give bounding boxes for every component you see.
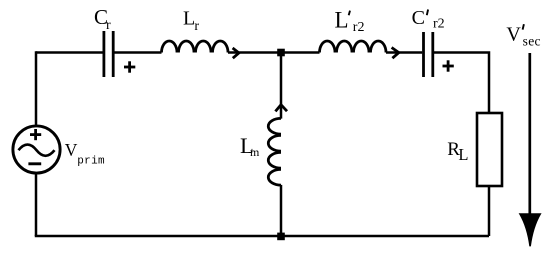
current arrow after L_r — [233, 48, 239, 58]
wire left rail upper (corner to source top) — [35, 51, 38, 125]
wire bottom rail — [35, 235, 489, 238]
svg-text:C: C — [412, 7, 425, 29]
inductor L2 (L'_r2) coil — [320, 41, 387, 53]
source plus sign — [30, 129, 41, 140]
wire L_r end to node A (through arrow) — [228, 51, 281, 54]
wire C'r2 to right corner, down to RL — [434, 53, 489, 113]
svg-text:r: r — [106, 18, 111, 33]
label L'_r2 — [335, 8, 365, 35]
svg-text:V: V — [506, 23, 521, 45]
wire L'r2 end to C'r2 — [386, 51, 422, 54]
svg-text:V: V — [65, 140, 78, 160]
source sine wave — [19, 145, 55, 156]
wire RL bottom to bottom rail — [488, 187, 491, 236]
label C_r — [94, 5, 111, 33]
capacitor C1 (C_r) plates — [104, 31, 113, 77]
wire middle branch upper — [280, 53, 283, 119]
wire top-left segment — [36, 51, 103, 54]
svg-text:r2: r2 — [433, 17, 445, 32]
current arrow on L_m branch (up) — [275, 105, 287, 112]
svg-text:r2: r2 — [353, 20, 365, 35]
capacitor C2 (C'_r2) plates — [424, 32, 433, 77]
svg-text:L: L — [335, 8, 349, 33]
svg-text:prim: prim — [77, 155, 105, 167]
label V'_sec — [506, 23, 540, 48]
V'_sec arrowhead — [520, 214, 540, 246]
wire C_r to L_r — [115, 51, 162, 54]
polarity plus of C'_r2 — [443, 60, 454, 71]
svg-text:L: L — [458, 145, 468, 164]
label L_r — [183, 8, 199, 34]
V'_sec arrow line — [528, 53, 531, 218]
current arrow after L'_r2 — [392, 48, 399, 59]
svg-text:L: L — [183, 8, 195, 30]
node A junction dot (top) — [277, 49, 285, 57]
label C'_r2 — [412, 7, 445, 32]
svg-text:sec: sec — [523, 33, 541, 48]
source V1 (V_prim) circle — [13, 126, 60, 173]
label L_m — [240, 133, 260, 159]
wire node A to L'r2 — [281, 51, 320, 54]
source minus sign — [28, 162, 41, 165]
node B junction dot (bottom) — [277, 233, 285, 241]
label R_L — [447, 139, 468, 164]
svg-text:m: m — [250, 145, 260, 159]
wire middle branch lower — [280, 185, 283, 236]
resistor R1 (R_L) body — [477, 113, 502, 186]
wire left rail lower (source bottom to corner) — [35, 174, 38, 236]
svg-text:r: r — [194, 19, 199, 34]
inductor L1 (L_r) coil — [162, 41, 229, 53]
polarity plus of C_r — [124, 61, 135, 72]
inductor L3 (L_m) vertical coil — [268, 118, 281, 185]
label V_prim — [65, 140, 105, 167]
